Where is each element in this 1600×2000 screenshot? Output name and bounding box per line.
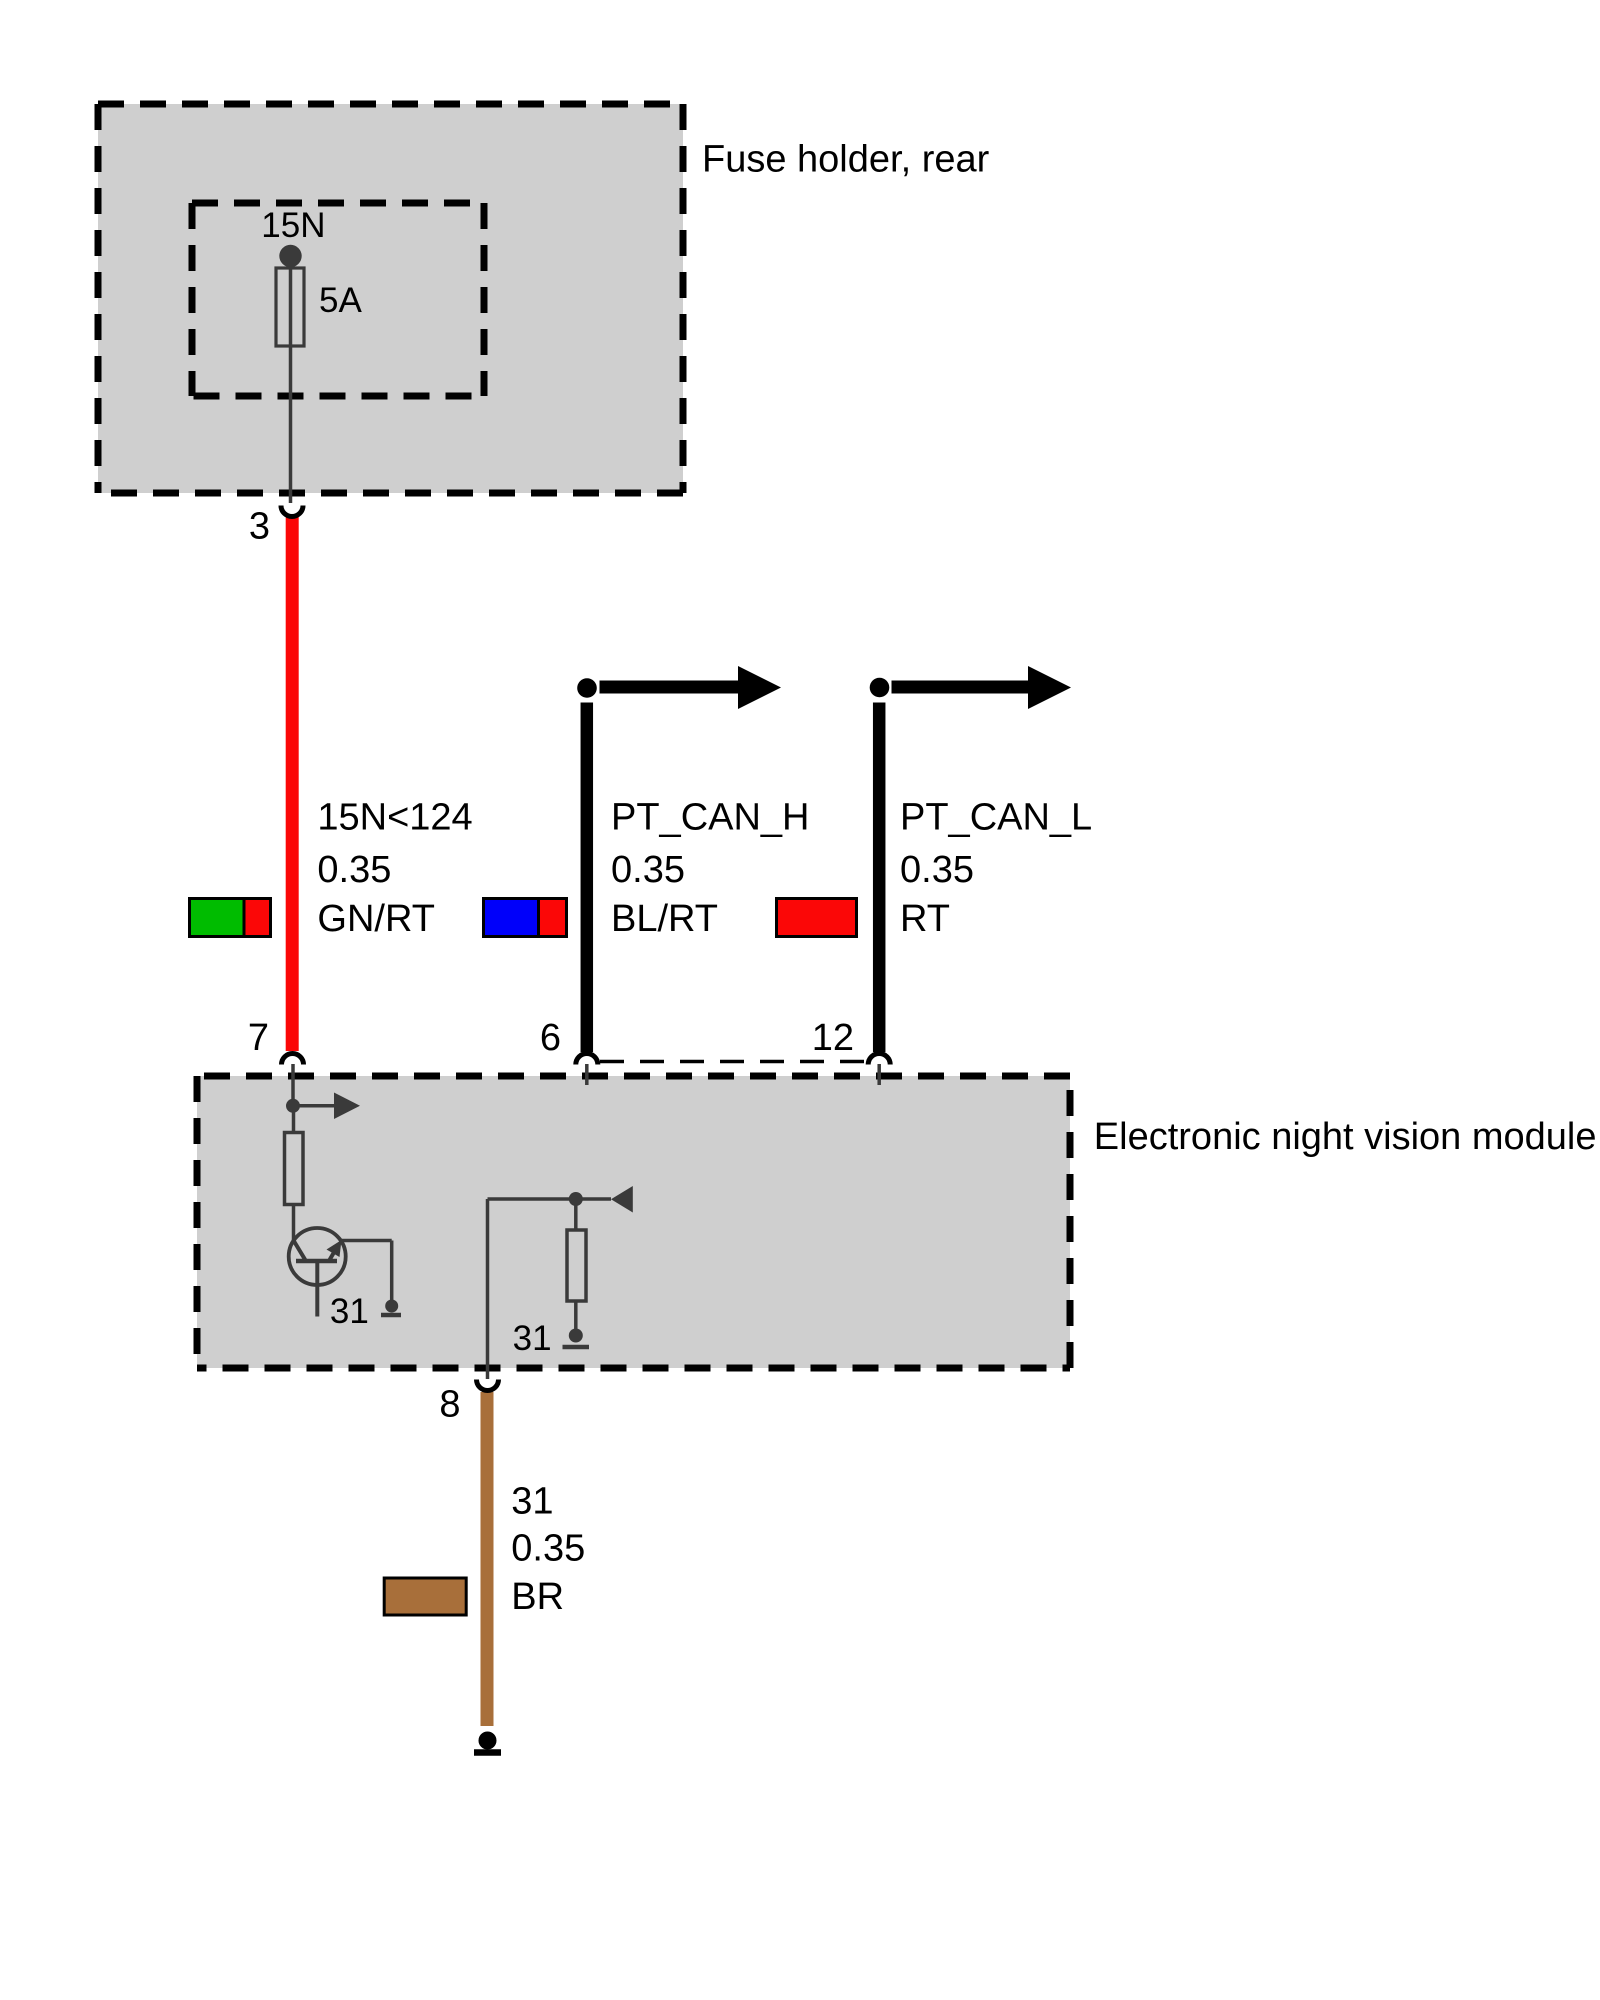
svg-text:GN/RT: GN/RT [317, 898, 435, 940]
svg-text:Fuse holder, rear: Fuse holder, rear [702, 139, 990, 181]
svg-text:Electronic night vision module: Electronic night vision module [1094, 1116, 1597, 1158]
svg-text:15N<124: 15N<124 [317, 797, 472, 839]
svg-text:15N: 15N [261, 206, 325, 245]
svg-text:PT_CAN_H: PT_CAN_H [611, 797, 810, 839]
svg-text:7: 7 [248, 1017, 269, 1059]
svg-text:0.35: 0.35 [511, 1528, 585, 1570]
svg-text:0.35: 0.35 [611, 849, 685, 891]
svg-text:8: 8 [439, 1384, 460, 1426]
svg-text:0.35: 0.35 [900, 849, 974, 891]
svg-text:31: 31 [511, 1481, 553, 1523]
svg-text:BR: BR [511, 1576, 564, 1618]
svg-text:31: 31 [513, 1319, 552, 1358]
svg-text:BL/RT: BL/RT [611, 898, 718, 940]
svg-text:3: 3 [249, 506, 270, 548]
svg-text:12: 12 [812, 1017, 854, 1059]
svg-text:RT: RT [900, 898, 950, 940]
svg-text:6: 6 [540, 1017, 561, 1059]
svg-text:31: 31 [330, 1292, 369, 1331]
svg-text:PT_CAN_L: PT_CAN_L [900, 797, 1092, 839]
svg-text:0.35: 0.35 [317, 849, 391, 891]
svg-text:5A: 5A [319, 281, 362, 320]
